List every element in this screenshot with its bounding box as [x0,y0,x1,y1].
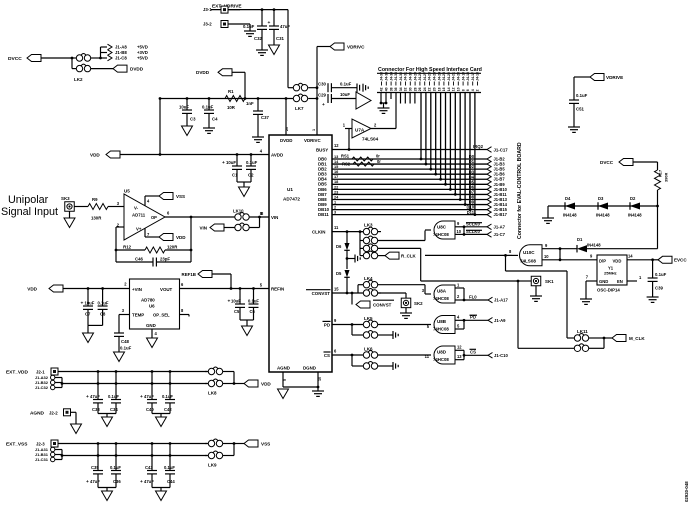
svg-text:AD711: AD711 [132,213,146,218]
svg-text:+: + [268,21,271,26]
svg-text:J1-C17: J1-C17 [494,147,509,152]
svg-text:AGND: AGND [30,410,45,416]
svg-text:EXT_VSS: EXT_VSS [6,441,27,447]
svg-text:U5: U5 [124,189,130,194]
svg-text:J1-A17: J1-A17 [494,298,508,303]
svg-text:0.1uF: 0.1uF [655,272,667,277]
svg-text:10: 10 [457,229,462,234]
svg-text:+: + [86,395,89,400]
svg-text:J1-C31: J1-C31 [35,457,49,462]
svg-text:RS1: RS1 [341,153,350,158]
svg-text:C6: C6 [250,309,256,314]
svg-text:+VIN: +VIN [132,287,142,292]
svg-text:J4-21: J4-21 [452,72,456,81]
svg-text:U8D: U8D [437,350,447,355]
svg-text:74HC08: 74HC08 [433,326,449,331]
svg-text:74LS04: 74LS04 [362,137,379,142]
svg-text:20: 20 [285,127,289,131]
svg-text:U6: U6 [149,304,155,309]
svg-text:9: 9 [283,379,287,381]
svg-text:74HC08: 74HC08 [433,296,449,301]
svg-text:J4-34: J4-34 [389,72,393,81]
svg-text:VIN: VIN [271,215,278,220]
svg-text:74HC08: 74HC08 [433,357,449,362]
svg-text:C48: C48 [121,339,130,344]
svg-text:VDD: VDD [90,152,100,157]
svg-text:J4-23: J4-23 [442,72,446,81]
svg-text:R12: R12 [123,245,132,250]
svg-text:22: 22 [428,87,432,91]
svg-text:J4-36: J4-36 [380,72,384,81]
svg-text:GND: GND [146,323,156,328]
svg-text:J2-1: J2-1 [36,369,45,374]
svg-text:26: 26 [418,87,422,91]
svg-text:J1-C7: J1-C7 [494,232,506,237]
svg-text:PD: PD [324,322,330,327]
svg-text:BUSY: BUSY [316,147,328,152]
svg-text:J4-30: J4-30 [409,72,413,81]
svg-text:13: 13 [457,354,462,359]
svg-text:J4-29: J4-29 [413,72,417,81]
svg-text:VDD: VDD [613,259,622,264]
svg-text:OSC-DIP14: OSC-DIP14 [597,288,620,293]
svg-text:74LS08: 74LS08 [520,259,536,264]
svg-text:D1: D1 [577,237,583,242]
svg-text:+5VD: +5VD [137,45,148,50]
svg-text:RS2: RS2 [342,162,351,167]
svg-text:DVDD: DVDD [130,66,144,71]
svg-text:J1-C8: J1-C8 [115,56,127,61]
svg-text:D2: D2 [630,196,636,201]
svg-text:18: 18 [437,87,441,91]
svg-text:EN: EN [617,279,623,284]
svg-text:J4-32: J4-32 [399,72,403,81]
svg-text:LK10: LK10 [233,209,244,214]
svg-text:J1-C32: J1-C32 [35,385,49,390]
svg-text:32: 32 [404,87,408,91]
svg-text:14: 14 [447,87,451,91]
svg-text:J2-3: J2-3 [36,441,45,446]
svg-text:+: + [322,103,325,108]
svg-text:VIN: VIN [199,225,207,230]
svg-text:U1: U1 [287,187,293,192]
svg-text:DB11: DB11 [318,212,329,217]
svg-text:15: 15 [334,286,339,291]
svg-text:DVDD: DVDD [196,70,210,75]
svg-text:Signal Input: Signal Input [1,206,58,218]
svg-text:D11: D11 [467,210,475,215]
svg-text:C51: C51 [576,107,585,112]
svg-text:J1-C10: J1-C10 [494,353,508,358]
svg-text:LK9: LK9 [208,463,217,468]
svg-text:0r: 0r [377,159,381,164]
svg-text:LK8: LK8 [208,391,217,396]
svg-text:V-: V- [134,206,139,211]
svg-text:LK7: LK7 [295,106,304,111]
svg-text:LK2: LK2 [74,77,83,82]
svg-text:12: 12 [457,345,462,350]
svg-text:390R: 390R [664,173,669,182]
svg-text:FL0: FL0 [469,294,477,299]
svg-text:02920-048: 02920-048 [684,481,689,502]
svg-text:DVCC: DVCC [8,56,22,62]
svg-text:2: 2 [476,89,480,91]
svg-text:11: 11 [334,225,339,230]
svg-text:J4-33: J4-33 [394,72,398,81]
svg-text:IRQ2: IRQ2 [473,144,484,149]
svg-text:VDRIVC: VDRIVC [304,138,321,143]
svg-text:J4-20: J4-20 [457,72,461,81]
svg-text:C5: C5 [234,309,240,314]
svg-text:D5: D5 [336,271,342,276]
svg-text:U8B: U8B [437,319,447,324]
svg-text:C32: C32 [254,36,263,41]
svg-text:12: 12 [334,143,339,148]
svg-text:0.1uF: 0.1uF [120,346,132,351]
svg-text:10uF: 10uF [179,105,189,110]
svg-text:C30: C30 [318,81,327,86]
svg-text:0.1uF: 0.1uF [576,93,588,98]
svg-text:47uF: 47uF [280,24,290,29]
svg-text:J1-A7: J1-A7 [494,224,506,229]
svg-text:J1-A8: J1-A8 [115,45,127,50]
svg-text:AD780: AD780 [141,298,155,303]
svg-text:16: 16 [442,87,446,91]
svg-text:34: 34 [399,87,403,91]
svg-text:28: 28 [413,87,417,91]
svg-text:IN4148: IN4148 [596,213,610,218]
svg-text:0.1uF: 0.1uF [243,24,255,29]
svg-text:C3: C3 [190,117,196,122]
svg-text:24: 24 [423,87,427,91]
svg-text:11: 11 [425,354,430,359]
svg-text:0.1uF: 0.1uF [162,394,173,399]
svg-text:J4-28: J4-28 [418,72,422,81]
svg-text:47uF: 47uF [144,479,154,484]
svg-text:47uF: 47uF [90,479,100,484]
svg-text:AD7472: AD7472 [283,197,300,202]
svg-text:+5VD: +5VD [137,56,148,61]
svg-text:J3-2: J3-2 [203,22,212,27]
svg-text:0.1uF: 0.1uF [110,465,121,470]
svg-text:J1-A9: J1-A9 [494,318,506,323]
svg-text:42: 42 [380,87,384,91]
svg-text:VDD: VDD [27,286,37,291]
svg-text:6: 6 [466,89,470,91]
svg-text:40: 40 [385,87,389,91]
svg-text:Unipolar: Unipolar [8,194,49,206]
svg-text:D/P: D/P [599,259,606,264]
svg-text:J4-35: J4-35 [385,72,389,81]
svg-text:SK2: SK2 [414,301,423,306]
svg-text:120R: 120R [167,245,178,250]
svg-text:74HC08: 74HC08 [433,232,449,237]
svg-text:0.1uF: 0.1uF [98,301,109,306]
svg-text:36: 36 [394,87,398,91]
svg-text:V+: V+ [136,227,142,232]
svg-text:23pF: 23pF [160,256,170,261]
svg-text:4: 4 [471,89,475,91]
svg-text:10uF: 10uF [226,160,236,165]
svg-text:REF1B: REF1B [182,272,196,277]
svg-text:IN4148: IN4148 [628,213,642,218]
svg-text:LK6: LK6 [364,346,373,351]
svg-text:20: 20 [433,87,437,91]
svg-text:130R: 130R [91,216,102,221]
svg-text:SK1: SK1 [545,279,554,284]
svg-text:J1-B17: J1-B17 [494,212,508,217]
svg-text:OP: OP [151,215,157,220]
svg-text:U8A: U8A [437,289,447,294]
svg-text:C4: C4 [212,117,218,122]
svg-text:DVCC: DVCC [600,160,614,165]
svg-text:10: 10 [544,254,549,259]
svg-text:1: 1 [312,129,316,131]
svg-text:LK5: LK5 [364,316,373,321]
svg-text:EXT_VDD: EXT_VDD [6,369,28,375]
svg-text:VDRIVC: VDRIVC [347,44,365,49]
svg-text:VDD: VDD [261,381,271,386]
svg-text:D6: D6 [336,244,342,249]
svg-text:VSS: VSS [176,194,185,199]
svg-text:CS: CS [470,350,476,355]
svg-text:GND: GND [599,279,608,284]
svg-text:0.1uF: 0.1uF [202,105,214,110]
svg-text:C33: C33 [92,407,100,412]
svg-text:LK11: LK11 [577,329,588,334]
svg-text:0.1uF: 0.1uF [340,81,352,86]
svg-text:C44: C44 [167,479,175,484]
svg-text:C39: C39 [655,286,664,291]
svg-text:0.1uF: 0.1uF [248,298,259,303]
svg-text:R1: R1 [228,89,234,94]
svg-text:VSS: VSS [261,441,270,446]
svg-text:J4-16: J4-16 [476,72,480,81]
svg-text:AGND: AGND [277,366,290,371]
svg-text:C29: C29 [318,92,327,97]
svg-text:47uF: 47uF [90,394,100,399]
svg-text:10uF: 10uF [85,301,95,306]
svg-text:10: 10 [318,377,322,381]
svg-text:0r: 0r [376,154,380,159]
svg-text:VDRIVE: VDRIVE [606,75,623,80]
svg-text:+: + [140,395,143,400]
svg-text:REFIN: REFIN [271,286,284,291]
svg-text:M_CLK: M_CLK [629,336,645,341]
svg-text:VDD: VDD [176,235,186,240]
svg-text:CONVST: CONVST [373,302,392,307]
svg-text:C35: C35 [91,465,99,470]
svg-text:0.1uF: 0.1uF [246,160,258,165]
svg-text:SCLK0: SCLK0 [466,221,480,226]
svg-text:J2-2: J2-2 [49,410,58,415]
svg-text:0.1uF: 0.1uF [108,394,119,399]
svg-text:10uF: 10uF [231,298,241,303]
svg-text:C43: C43 [145,465,153,470]
svg-text:10R: 10R [227,105,236,110]
svg-text:+: + [222,161,225,166]
svg-text:J3-1: J3-1 [203,7,212,12]
svg-text:C34: C34 [110,407,118,412]
svg-text:LK3: LK3 [364,223,373,228]
svg-text:D3: D3 [598,196,604,201]
svg-text:C31: C31 [276,36,285,41]
svg-text:EVCC: EVCC [674,258,687,263]
svg-text:10uF: 10uF [340,92,350,97]
svg-text:J4-19: J4-19 [461,72,465,81]
svg-text:0.1uF: 0.1uF [164,465,175,470]
svg-text:LK4: LK4 [364,276,373,281]
svg-text:OP_SEL: OP_SEL [153,313,170,318]
svg-text:DVDD: DVDD [280,138,293,143]
svg-text:CONVST: CONVST [312,291,331,296]
svg-text:U7A: U7A [355,128,365,133]
svg-text:CLKIN: CLKIN [312,229,325,234]
svg-text:C40: C40 [146,407,154,412]
svg-text:J4-24: J4-24 [437,72,441,81]
svg-text:+: + [81,302,84,307]
svg-text:CS: CS [324,353,330,358]
svg-text:J4-27: J4-27 [423,72,427,81]
svg-text:C46: C46 [135,256,144,261]
svg-text:J1-B8: J1-B8 [115,50,127,55]
svg-text:38: 38 [389,87,393,91]
svg-text:J4-31: J4-31 [404,72,408,81]
svg-text:J4-22: J4-22 [447,72,451,81]
svg-text:D4: D4 [565,196,571,201]
svg-text:+: + [140,480,143,485]
svg-text:VOUT: VOUT [160,287,173,292]
svg-text:DGND: DGND [303,366,316,371]
svg-text:25MHz: 25MHz [604,271,617,276]
svg-text:J4-18: J4-18 [466,72,470,81]
svg-text:R17: R17 [658,170,663,177]
svg-text:J4-17: J4-17 [471,72,475,81]
svg-text:TEMP: TEMP [132,313,144,318]
svg-text:12: 12 [452,87,456,91]
svg-text:J4-25: J4-25 [433,72,437,81]
svg-text:10: 10 [457,87,461,91]
svg-text:AVDD: AVDD [271,152,283,157]
svg-text:IN4148: IN4148 [587,243,601,248]
svg-text:U10C: U10C [523,250,535,255]
svg-text:IN4148: IN4148 [563,213,577,218]
svg-text:8: 8 [461,89,465,91]
svg-text:U8C: U8C [437,225,447,230]
svg-text:+: + [86,480,89,485]
svg-text:C37: C37 [261,115,270,120]
svg-text:47uF: 47uF [144,394,154,399]
svg-text:14: 14 [628,253,633,258]
svg-text:R_CLK: R_CLK [401,253,417,258]
svg-text:1nF: 1nF [246,101,254,106]
svg-text:+3VD: +3VD [137,50,148,55]
svg-text:C36: C36 [113,479,121,484]
svg-text:J4-26: J4-26 [428,72,432,81]
svg-text:R9: R9 [92,197,98,202]
svg-text:SK3: SK3 [61,196,70,201]
svg-text:30: 30 [409,87,413,91]
svg-text:Connector for EVAL-CONTROL BOA: Connector for EVAL-CONTROL BOARD [517,142,523,239]
svg-text:C42: C42 [164,407,172,412]
